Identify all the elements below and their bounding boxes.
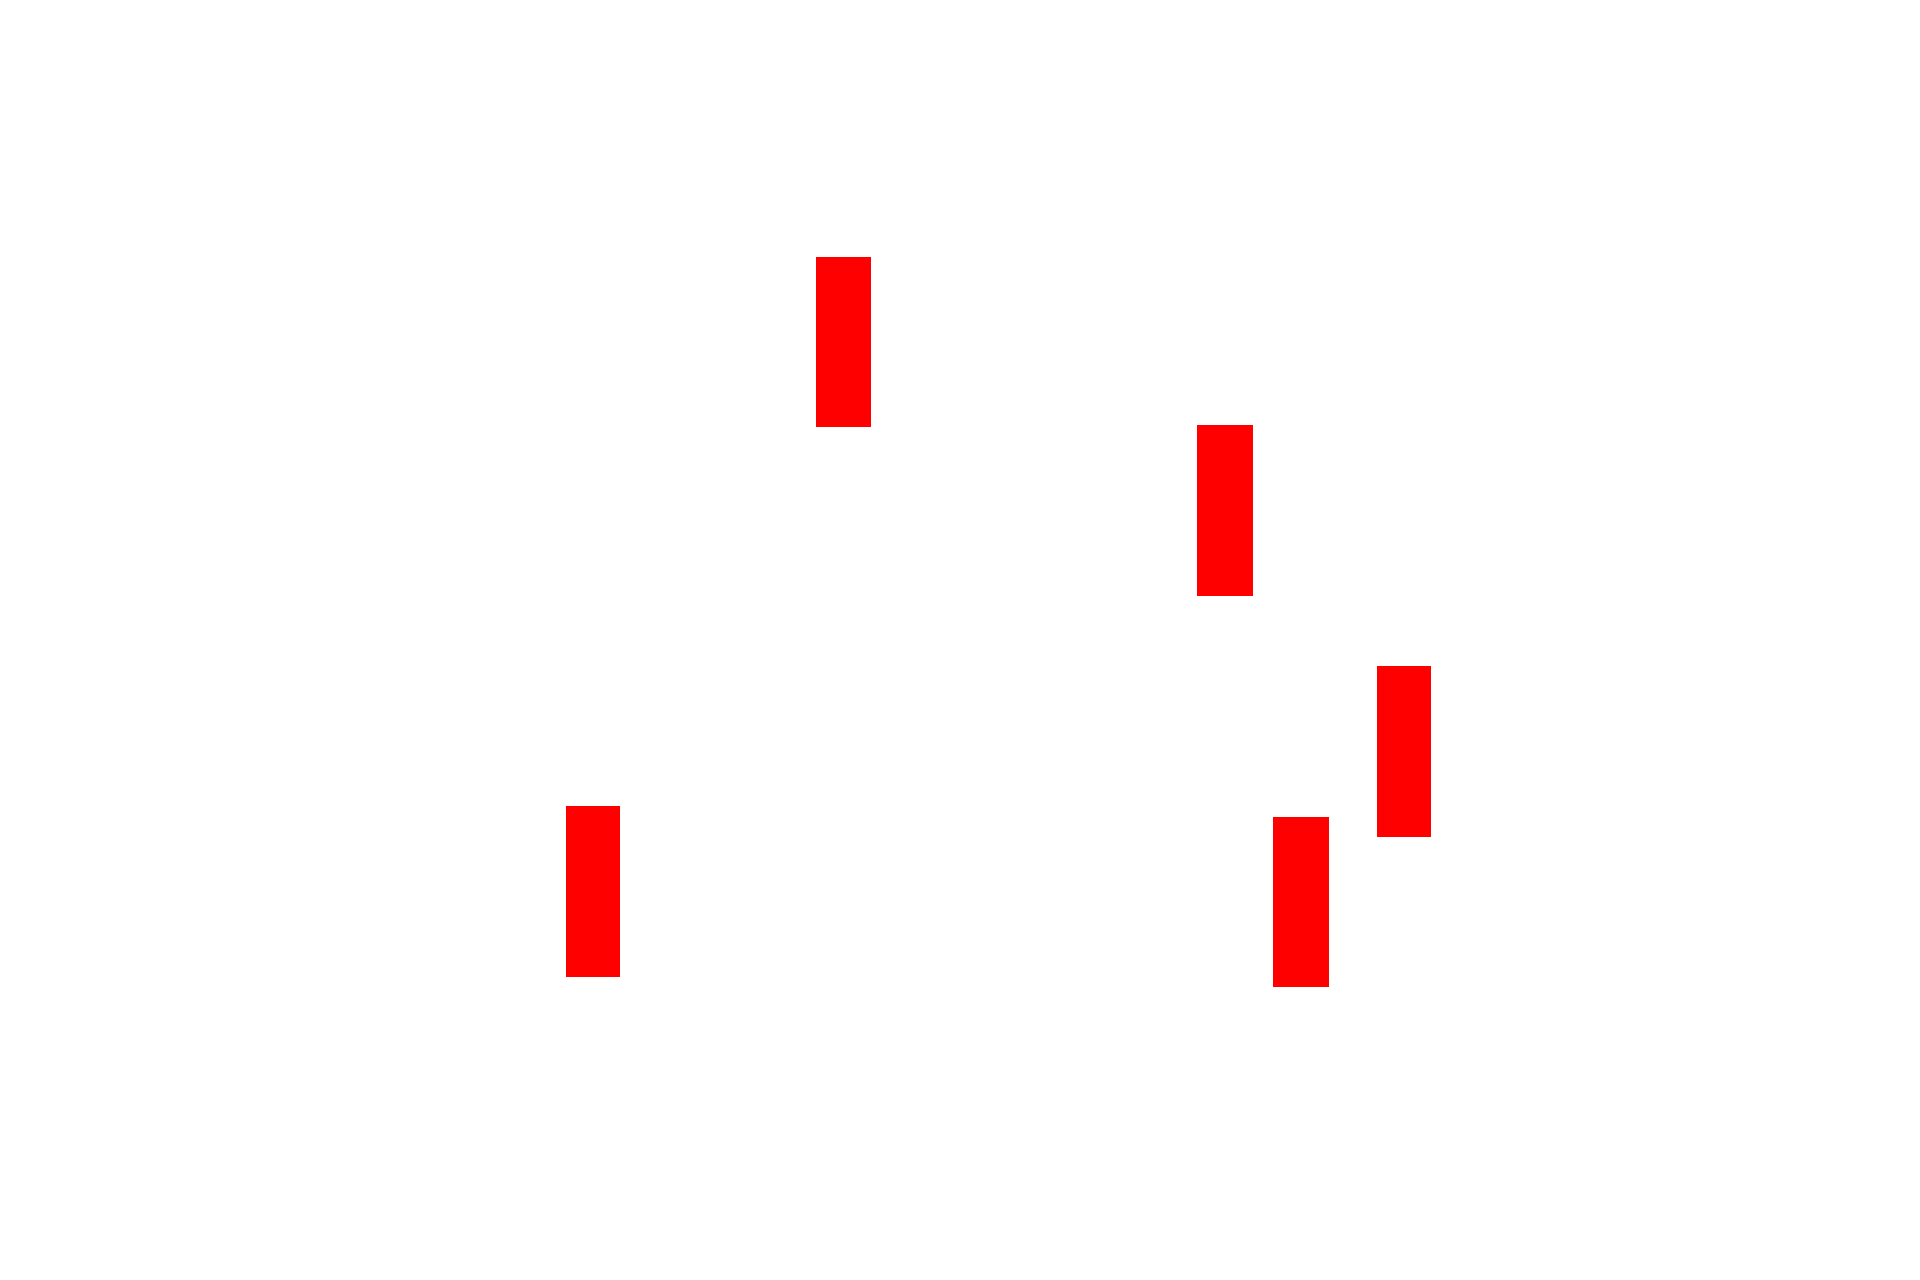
- red bar 2: [1197, 425, 1253, 596]
- red bar 4: [566, 806, 620, 977]
- red bar 3: [1377, 666, 1431, 837]
- red bar 1: [816, 257, 871, 427]
- red bar 5: [1273, 817, 1329, 987]
